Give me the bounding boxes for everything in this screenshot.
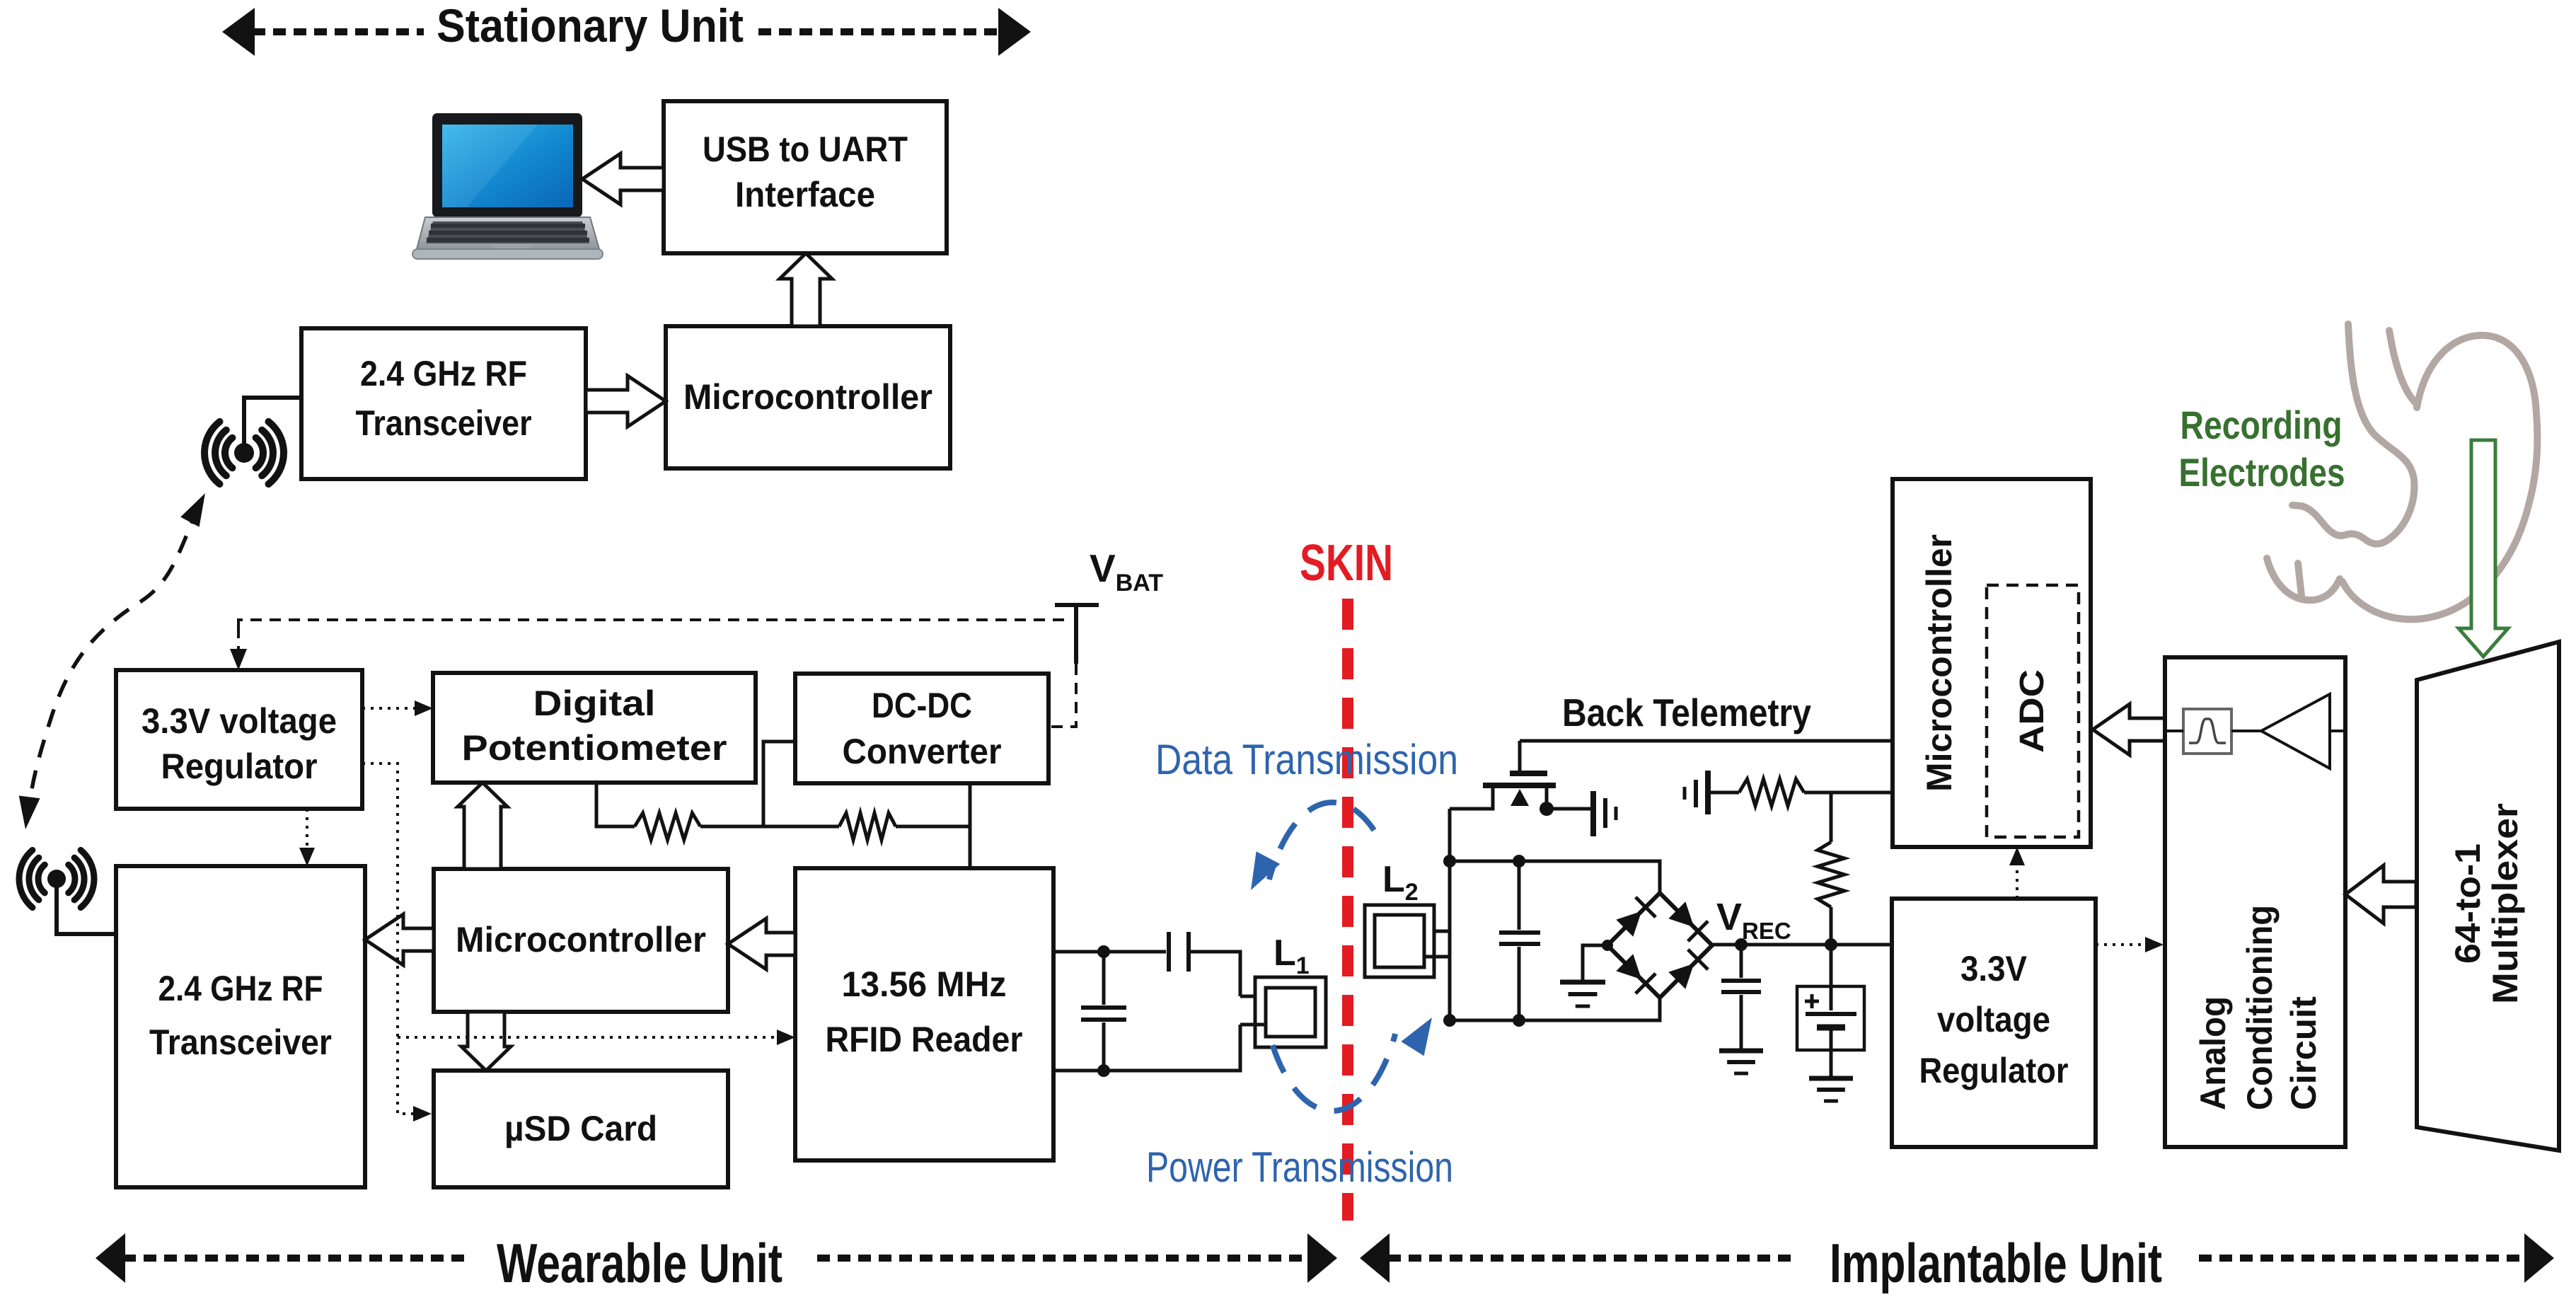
diode D1 bbox=[1616, 911, 1641, 937]
svg-text:Digital: Digital bbox=[533, 684, 656, 723]
svg-text:Back Telemetry: Back Telemetry bbox=[1562, 691, 1811, 734]
microcontroller box (implant) bbox=[1893, 479, 2091, 847]
parallel capacitor C2 bbox=[1102, 952, 1106, 1005]
svg-text:Transceiver: Transceiver bbox=[356, 403, 532, 443]
wire digital potentiometer to feedback node bbox=[596, 783, 635, 826]
svg-text:Potentiometer: Potentiometer bbox=[462, 728, 727, 768]
svg-text:Stationary Unit: Stationary Unit bbox=[437, 0, 744, 52]
svg-text:Transceiver: Transceiver bbox=[149, 1022, 332, 1062]
wire antenna to transceiver (stationary) bbox=[244, 398, 301, 446]
implantable unit footer bbox=[1360, 1233, 1390, 1283]
arrow microcontroller to USB-to-UART bbox=[780, 253, 832, 326]
svg-text:Recording: Recording bbox=[2181, 403, 2343, 447]
svg-text:3.3V voltage: 3.3V voltage bbox=[141, 701, 337, 741]
wire RFID top output bbox=[1053, 950, 1166, 954]
svg-text:µSD Card: µSD Card bbox=[504, 1109, 657, 1148]
stationary unit header arrow left bbox=[222, 8, 255, 56]
svg-text:Interface: Interface bbox=[735, 175, 875, 214]
green electrode arrow bbox=[2459, 440, 2508, 657]
junction node bottom bbox=[1097, 1064, 1110, 1077]
arrow multiplexer to analog conditioning bbox=[2345, 865, 2416, 923]
dotted arrow regulator to ADC bbox=[2016, 860, 2018, 899]
ground (capacitor) bbox=[1719, 1051, 1763, 1073]
stationary unit header arrow right bbox=[758, 28, 1000, 35]
RF link arrowhead down bbox=[19, 796, 40, 830]
SKIN dashed line bbox=[1342, 599, 1353, 1221]
top rail bbox=[1450, 861, 1660, 896]
filter block bbox=[2183, 709, 2231, 754]
wire DC-DC to RFID reader bbox=[969, 783, 972, 868]
back telemetry wire bbox=[1520, 739, 1893, 743]
wire DC-DC left pin down to node bbox=[763, 742, 795, 826]
svg-text:13.56 MHz: 13.56 MHz bbox=[842, 964, 1007, 1004]
stomach outline bbox=[2267, 324, 2537, 619]
USB to UART Interface box bbox=[664, 101, 947, 253]
wire amplifier to box edge bbox=[2330, 730, 2345, 732]
svg-text:Microcontroller: Microcontroller bbox=[1919, 534, 1959, 792]
resistor R4 divider bbox=[1830, 792, 1833, 842]
svg-text:Circuit: Circuit bbox=[2284, 996, 2323, 1110]
wire bars to resistor R3 bbox=[1711, 791, 1739, 795]
antenna (stationary) bbox=[204, 422, 284, 484]
power transmission arc bbox=[1273, 1034, 1396, 1111]
dotted arrow regulator to analog conditioning bbox=[2096, 943, 2151, 946]
3.3V voltage regulator box (wearable) bbox=[116, 670, 362, 809]
micro SD card box bbox=[434, 1071, 728, 1187]
microcontroller box (wearable) bbox=[434, 869, 728, 1012]
antenna (wearable) bbox=[19, 850, 94, 907]
wire capacitor to L1 bbox=[1189, 952, 1240, 996]
svg-text:Implantable Unit: Implantable Unit bbox=[1830, 1232, 2162, 1294]
RF ground bars (source) bbox=[1593, 791, 1616, 836]
wire R2 to DC-DC output bbox=[896, 825, 970, 829]
dashed VBAT supply rail bbox=[238, 620, 1070, 627]
svg-text:Data Transmission: Data Transmission bbox=[1155, 736, 1458, 783]
svg-text:2.4 GHz RF: 2.4 GHz RF bbox=[158, 969, 323, 1008]
svg-text:64-to-1: 64-to-1 bbox=[2448, 843, 2488, 964]
arrow RFID reader to microcontroller bbox=[728, 918, 795, 969]
diode D3 bbox=[1616, 954, 1641, 979]
VREC rail bbox=[1712, 943, 1892, 947]
implant input node line bbox=[1448, 809, 1452, 1020]
svg-text:Conditioning: Conditioning bbox=[2240, 905, 2280, 1110]
coil L1 bbox=[1240, 977, 1326, 1047]
ground (bridge) bbox=[1560, 982, 1605, 1006]
diode D2 bbox=[1668, 901, 1694, 927]
diode bridge rectifier bbox=[1607, 893, 1712, 998]
microcontroller box (stationary) bbox=[666, 326, 950, 468]
digital potentiometer box bbox=[433, 673, 756, 783]
svg-text:Electrodes: Electrodes bbox=[2179, 450, 2345, 495]
RF link arrowhead up bbox=[180, 493, 205, 527]
dotted line regulator to transceiver bbox=[306, 809, 308, 853]
wire box edge to filter bbox=[2165, 730, 2183, 732]
wire filter to amplifier bbox=[2231, 730, 2261, 732]
svg-text:Power Transmission: Power Transmission bbox=[1146, 1143, 1453, 1191]
arrow transceiver to microcontroller bbox=[586, 376, 666, 427]
svg-text:Regulator: Regulator bbox=[1919, 1051, 2069, 1090]
bottom rail bbox=[1450, 995, 1660, 1020]
svg-text:Regulator: Regulator bbox=[161, 747, 318, 786]
svg-text:Microcontroller: Microcontroller bbox=[456, 920, 706, 959]
svg-text:2.4 GHz RF: 2.4 GHz RF bbox=[360, 354, 527, 393]
wearable unit footer bbox=[96, 1233, 125, 1283]
wire R1 to DC-DC tap bbox=[700, 825, 839, 829]
svg-text:RFID Reader: RFID Reader bbox=[826, 1020, 1023, 1059]
rectifier input capacitor bbox=[1518, 861, 1521, 930]
resistor R2 bbox=[839, 813, 896, 840]
amplifier (triangle) bbox=[2261, 694, 2330, 768]
dotted line regulator to RFID and SD bbox=[362, 763, 417, 1114]
svg-text:Multiplexer: Multiplexer bbox=[2485, 803, 2525, 1004]
svg-text:Wearable Unit: Wearable Unit bbox=[497, 1232, 782, 1294]
resistor R3 bbox=[1739, 779, 1804, 806]
smoothing capacitor bbox=[1740, 945, 1743, 978]
wire RFID bottom output bbox=[1053, 1025, 1240, 1071]
svg-text:SKIN: SKIN bbox=[1300, 535, 1393, 592]
dotted line regulator to digital potentiometer bbox=[362, 707, 420, 710]
analog conditioning circuit box bbox=[2165, 657, 2345, 1147]
diode D4 bbox=[1668, 964, 1694, 989]
dashed RF link between antennas bbox=[28, 507, 199, 815]
arrow microcontroller to digital potentiometer bbox=[458, 783, 507, 869]
svg-text:DC-DC: DC-DC bbox=[872, 686, 972, 725]
DC-DC converter box bbox=[795, 674, 1049, 783]
dotted branch to RFID reader bbox=[398, 1036, 782, 1039]
2.4 GHz RF transceiver box (stationary) bbox=[301, 328, 586, 479]
svg-text:Converter: Converter bbox=[843, 732, 1002, 771]
arrow analog conditioning to ADC bbox=[2093, 704, 2165, 755]
wire bridge left to ground bbox=[1583, 945, 1607, 980]
transistor Q1 (MOSFET) bbox=[1450, 741, 1591, 809]
wire R3 to microcontroller bbox=[1804, 791, 1893, 795]
ADC block bbox=[1987, 585, 2079, 837]
series capacitor C1 bbox=[1167, 932, 1171, 972]
2.4 GHz RF transceiver box (wearable) bbox=[116, 866, 365, 1187]
wire antenna to transceiver (wearable) bbox=[57, 886, 116, 934]
VBAT terminal bbox=[1055, 603, 1099, 607]
svg-text:ADC: ADC bbox=[2014, 669, 2051, 753]
resistor R1 bbox=[635, 813, 700, 840]
dashed wire VBAT to DC-DC converter bbox=[1050, 664, 1076, 727]
svg-text:3.3V: 3.3V bbox=[1960, 949, 2028, 988]
arrow microcontroller to micro SD card bbox=[461, 1012, 511, 1071]
svg-text:voltage: voltage bbox=[1937, 1000, 2050, 1039]
junction node top bbox=[1097, 945, 1110, 958]
svg-text:Microcontroller: Microcontroller bbox=[683, 377, 932, 417]
RF ground bars (divider) bbox=[1685, 771, 1708, 814]
arrow microcontroller to RF transceiver bbox=[365, 914, 434, 965]
battery B1 bbox=[1830, 945, 1833, 1010]
svg-text:USB to UART: USB to UART bbox=[703, 129, 908, 169]
arrow USB-to-UART to laptop bbox=[582, 154, 664, 204]
laptop computer bbox=[412, 113, 603, 259]
3.3V voltage regulator box (implant) bbox=[1892, 899, 2096, 1147]
data transmission arc bbox=[1269, 802, 1374, 880]
arrow into 3.3V regulator top bbox=[237, 627, 240, 655]
ground (battery) bbox=[1809, 1078, 1853, 1101]
coil L2 bbox=[1365, 905, 1450, 977]
64-to-1 multiplexer bbox=[2417, 642, 2559, 1151]
svg-text:Analog: Analog bbox=[2193, 996, 2233, 1110]
13.56 MHz RFID reader box bbox=[795, 868, 1053, 1160]
